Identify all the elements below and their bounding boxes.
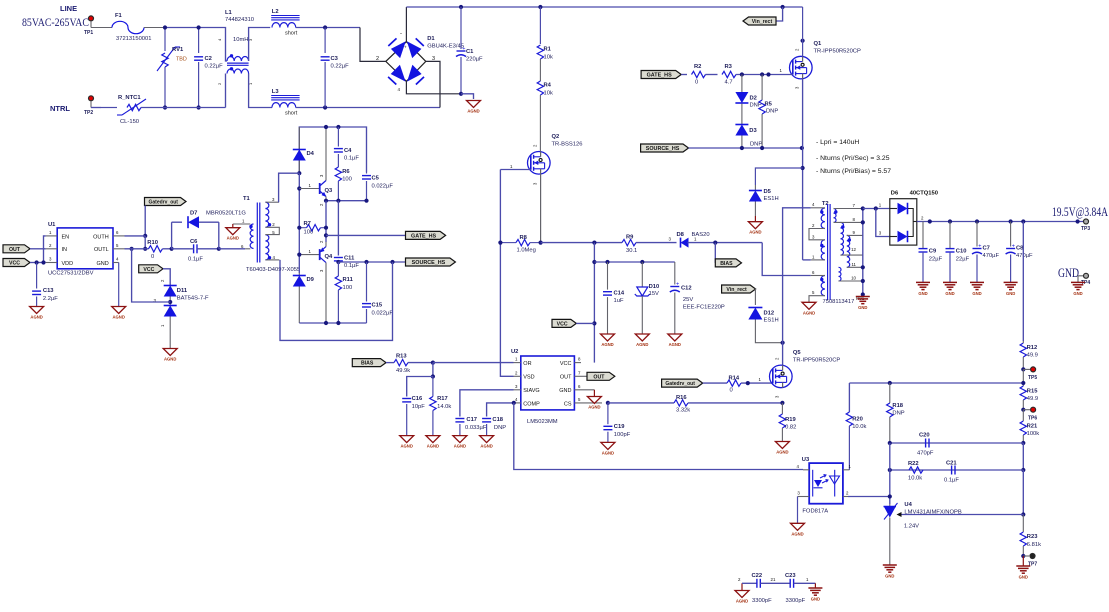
junction R22 left [888, 468, 892, 472]
resistor R23 [1020, 515, 1041, 557]
transistor Q4 [299, 240, 333, 323]
inductor L3 short [271, 89, 299, 117]
svg-text:R16: R16 [676, 395, 687, 401]
transistor Q5 [759, 350, 841, 398]
junction Q5 source [780, 401, 784, 405]
svg-text:D10: D10 [649, 284, 660, 290]
svg-text:3: 3 [432, 56, 435, 62]
diode D7 [172, 211, 247, 249]
capacitor C18 DNP [482, 403, 514, 436]
svg-text:C22: C22 [752, 573, 763, 579]
junction C8 top [1009, 219, 1013, 223]
svg-text:C17: C17 [466, 417, 477, 423]
svg-text:R10: R10 [147, 240, 158, 246]
svg-text:D12: D12 [764, 311, 775, 317]
junction C4 top [336, 125, 340, 129]
svg-text:R22: R22 [908, 461, 919, 467]
svg-text:D6: D6 [891, 191, 899, 197]
svg-text:AGND: AGND [467, 109, 479, 114]
svg-text:100: 100 [342, 177, 352, 183]
wire T1 pin3 to cell [279, 173, 300, 202]
svg-text:R9: R9 [626, 235, 634, 241]
transistor Q3 [299, 127, 333, 206]
resistor R6 [335, 154, 352, 201]
diode D12 [748, 289, 782, 343]
junction Q3 base [297, 186, 301, 190]
wire OUTH to OUTL row [125, 236, 146, 249]
capacitor C4 [334, 127, 359, 162]
svg-text:TP5: TP5 [1028, 375, 1037, 381]
junction R7 right [324, 226, 328, 230]
svg-text:AGND: AGND [113, 315, 125, 320]
capacitor C6 [172, 239, 219, 263]
capacitor C22 [738, 573, 790, 604]
wire R12 column [1022, 222, 1024, 342]
wire bottom AC rail [91, 107, 226, 109]
junction D6 out [928, 219, 932, 223]
svg-text:D2: D2 [750, 96, 757, 102]
node NTRL label [50, 104, 70, 113]
svg-text:25V: 25V [683, 297, 693, 303]
junction C13 top [35, 260, 39, 264]
svg-text:VCC: VCC [560, 361, 572, 367]
junction bus pin8 [861, 220, 865, 224]
wire T2 secondary common bus [862, 209, 864, 295]
svg-text:R5: R5 [765, 102, 773, 108]
capacitor C17 [455, 390, 513, 436]
resistor R3 [722, 64, 736, 86]
net label SOURCE_HS mid [406, 258, 456, 266]
svg-text:D9: D9 [307, 277, 315, 283]
junction emitter jog [324, 199, 328, 203]
capacitor C12 [670, 262, 725, 334]
resistor R17 [430, 377, 452, 436]
junction D12 bottom [781, 341, 785, 345]
wire OUTL row [125, 248, 149, 250]
svg-text:AGND: AGND [636, 342, 648, 347]
svg-text:GND: GND [972, 291, 981, 296]
svg-text:GND: GND [1006, 291, 1015, 296]
test point TP2 [84, 96, 94, 116]
svg-text:GND: GND [1058, 266, 1079, 280]
wire T2 pin7 to D6 [863, 208, 890, 210]
svg-text:TP1: TP1 [84, 30, 93, 36]
ground AGND at C1 [461, 94, 481, 114]
capacitor C15 [362, 262, 393, 323]
ground AGND at U1 GND pin [112, 263, 126, 320]
wire GATE_HS to R2 [681, 74, 687, 76]
junction U4 ref node [1021, 512, 1025, 516]
svg-text:TR-BSS126: TR-BSS126 [552, 142, 583, 148]
junction Q1 drain [801, 39, 805, 43]
svg-text:11: 11 [851, 262, 856, 267]
svg-text:0.82: 0.82 [785, 424, 796, 430]
svg-text:D7: D7 [190, 211, 197, 217]
svg-text:AGND: AGND [401, 444, 413, 449]
capacitor C3 [321, 28, 350, 108]
resistor R12 [1020, 341, 1038, 369]
resistor R11 [335, 262, 353, 323]
svg-text:AGND: AGND [791, 531, 803, 536]
wire Q1 source down to T2 pin1 [803, 79, 811, 260]
net label Vin_rect top [743, 7, 783, 25]
net label VCC mid [552, 319, 594, 327]
ground AGND at D10 [635, 334, 649, 347]
junction C3 top [323, 25, 327, 29]
ground AGND at U3 pin3 [791, 497, 805, 537]
svg-text:U4: U4 [904, 502, 912, 508]
svg-text:R18: R18 [892, 403, 903, 409]
test point TP1 [84, 16, 94, 36]
junction OUTL node [143, 247, 147, 251]
wire rectified rail [406, 6, 802, 8]
capacitor C23 [785, 573, 815, 604]
wire Q1 drain [802, 7, 804, 57]
svg-text:470µF: 470µF [983, 253, 1000, 259]
svg-text:3300pF: 3300pF [752, 598, 772, 604]
junction RV1 top [163, 25, 167, 29]
junction C6 left [170, 247, 174, 251]
junction R13 right [431, 361, 435, 365]
capacitor C19 [603, 403, 630, 443]
ground AGND at C13 [30, 307, 44, 320]
junction Vin_rect drop [781, 5, 785, 9]
svg-text:RV1: RV1 [172, 47, 184, 53]
wire SOURCE_HS row cell [338, 261, 405, 263]
junction Q4 collector rail [324, 321, 328, 325]
svg-text:220µF: 220µF [466, 57, 483, 63]
junction VCC column top [592, 241, 596, 245]
resistor R9 [622, 235, 637, 255]
junction D2 top [740, 72, 744, 76]
svg-text:BIAS: BIAS [720, 261, 733, 267]
svg-text:4.7: 4.7 [725, 80, 733, 86]
junction bus bottom [861, 292, 865, 296]
svg-text:ES1H: ES1H [764, 196, 779, 202]
svg-text:Q4: Q4 [325, 254, 334, 260]
svg-text:+: + [676, 281, 679, 287]
junction RV1 bottom [163, 105, 167, 109]
ground GND at C9 [916, 282, 930, 296]
ground AGND at R17 [426, 436, 440, 449]
svg-text:C21: C21 [946, 461, 957, 467]
net label GATE_HS right [641, 71, 681, 79]
zener D10 [635, 262, 659, 334]
resistor R14 [727, 376, 741, 394]
svg-text:GND: GND [559, 388, 571, 394]
svg-text:22µF: 22µF [956, 257, 970, 263]
svg-text:C3: C3 [331, 56, 339, 62]
resistor R5 DNP [759, 75, 778, 149]
test point TP5 [1021, 367, 1037, 381]
junction vcc cap rail [592, 260, 596, 264]
svg-text:C4: C4 [344, 148, 352, 154]
junction C20 left [888, 441, 892, 445]
svg-text:R20: R20 [852, 417, 863, 423]
svg-text:VDD: VDD [62, 261, 74, 267]
diode D4 [293, 127, 315, 173]
capacitor C1 [456, 7, 483, 94]
wire R8 to R9 [541, 242, 622, 244]
junction D5 row [801, 166, 805, 170]
svg-text:D11: D11 [177, 288, 188, 294]
ic U1 UCC27531 [46, 222, 125, 277]
svg-text:Q1: Q1 [814, 41, 823, 47]
wire column to R22 row [1022, 443, 1024, 470]
svg-text:0.22µF: 0.22µF [331, 64, 350, 70]
junction T1 pin3 node [297, 171, 301, 175]
svg-text:470µF: 470µF [1016, 253, 1033, 259]
svg-text:15V: 15V [649, 291, 659, 297]
svg-text:short: short [285, 31, 298, 37]
svg-text:L3: L3 [272, 89, 280, 95]
wire top AC rail [165, 27, 225, 29]
svg-text:GND: GND [1073, 291, 1082, 296]
svg-text:GND: GND [811, 597, 820, 602]
junction VCC tag node [592, 321, 596, 325]
svg-text:C11: C11 [344, 256, 355, 262]
wire R2 to R3 [706, 74, 718, 76]
net label VCC at D11 [139, 265, 163, 273]
ground GND at TP7 [1016, 556, 1030, 580]
junction D10 top [640, 260, 644, 264]
wire SOURCE_HS row [689, 147, 802, 149]
svg-text:+: + [462, 46, 465, 52]
wire Q2 source down [540, 174, 542, 243]
junction COMP node [512, 401, 516, 405]
svg-text:GND: GND [945, 291, 954, 296]
svg-text:GND: GND [885, 574, 894, 579]
resistor R20 [846, 383, 866, 470]
svg-text:+: + [1012, 243, 1015, 249]
svg-text:UCC27531/2DBV: UCC27531/2DBV [48, 271, 94, 277]
svg-text:C2: C2 [205, 56, 212, 62]
wire D8 to bias corner [688, 242, 763, 244]
svg-text:C14: C14 [614, 291, 625, 297]
wire D6 out to rail [917, 221, 1083, 223]
svg-text:Q5: Q5 [793, 350, 802, 356]
svg-text:AGND: AGND [164, 357, 176, 362]
junction C20 right [1021, 441, 1025, 445]
svg-text:VCC: VCC [9, 261, 20, 267]
junction Q5 gate node [746, 381, 750, 385]
svg-text:10.0k: 10.0k [908, 476, 922, 482]
svg-text:3300pF: 3300pF [786, 598, 806, 604]
svg-text:0.022µF: 0.022µF [372, 184, 394, 190]
wire bias divider column [432, 363, 434, 377]
junction R11 bottom [336, 321, 340, 325]
ground AGND at R19 [775, 442, 789, 455]
note Nturns pri-bias [816, 168, 891, 175]
svg-text:VCC: VCC [557, 322, 568, 328]
wire R13 to U2 pin1 [433, 362, 514, 364]
svg-text:AGND: AGND [480, 444, 492, 449]
svg-text:0.1µF: 0.1µF [944, 478, 959, 484]
wire Gatedrv_out down to OUTH [144, 206, 146, 236]
svg-text:C16: C16 [412, 396, 423, 402]
svg-text:0.033µF: 0.033µF [465, 425, 487, 431]
net label VCC left [3, 259, 46, 267]
svg-text:BIAS: BIAS [361, 361, 374, 367]
junction divider node [431, 374, 435, 378]
note Nturns pri-sec [816, 155, 890, 162]
net label Gatedrv_out mid [662, 379, 727, 387]
svg-text:D4: D4 [307, 151, 315, 157]
ground AGND at C22 [735, 583, 749, 603]
svg-text:AGND: AGND [30, 315, 42, 320]
svg-text:BAT54S-7-F: BAT54S-7-F [177, 296, 209, 302]
svg-text:GND: GND [1019, 575, 1028, 580]
svg-text:U2: U2 [511, 349, 518, 355]
net label OUT left [3, 245, 46, 253]
svg-text:R23: R23 [1027, 534, 1038, 540]
junction C7 top [975, 219, 979, 223]
svg-text:L1: L1 [225, 10, 233, 16]
svg-text:0: 0 [730, 388, 733, 394]
svg-text:22µF: 22µF [929, 257, 943, 263]
node LINE label [22, 4, 89, 29]
ground AGND at D11 [163, 349, 177, 362]
svg-text:MBR0520LT1G: MBR0520LT1G [206, 211, 246, 217]
junction BIAS drop [713, 241, 717, 245]
svg-text:10: 10 [851, 276, 856, 281]
ground AGND at C17 [453, 436, 467, 449]
svg-text:7508113417: 7508113417 [823, 299, 855, 305]
svg-text:AGND: AGND [776, 450, 788, 455]
node output label [1052, 205, 1108, 219]
svg-text:EN: EN [62, 234, 70, 240]
wire driver cell top rail [299, 127, 366, 173]
ground GND at C8 [1004, 282, 1018, 296]
net label GATE_HS mid [406, 231, 446, 239]
svg-text:CS: CS [564, 401, 572, 407]
svg-text:short: short [285, 111, 298, 117]
resistor R4 [537, 59, 553, 152]
svg-text:R11: R11 [343, 277, 354, 283]
wire Q2 gate to VSD column [500, 170, 530, 243]
svg-text:AGND: AGND [427, 444, 439, 449]
svg-text:TP3: TP3 [1081, 226, 1090, 232]
junction C21 right [1021, 468, 1025, 472]
svg-text:U3: U3 [802, 457, 810, 463]
junction R12 column top [1021, 219, 1025, 223]
net label BIAS right [715, 243, 741, 267]
svg-text:OUT: OUT [560, 375, 572, 381]
svg-text:VCC: VCC [143, 267, 154, 273]
junction R6 bottom [336, 199, 340, 203]
fuse F1 [91, 13, 165, 42]
svg-text:- Nturns (Pri/Bias) = 5.57: - Nturns (Pri/Bias) = 5.57 [816, 168, 891, 175]
capacitor C20 [917, 433, 934, 457]
ic U2 LM5023MM [511, 349, 602, 425]
svg-text:12: 12 [851, 247, 856, 252]
svg-text:40CTQ150: 40CTQ150 [910, 191, 938, 197]
shunt regulator U4 LMV431 [884, 502, 962, 565]
ic U3 FOD817A [797, 457, 852, 515]
svg-text:AGND: AGND [749, 230, 761, 235]
junction C14 top [605, 260, 609, 264]
junction fb column U3 [888, 494, 892, 498]
svg-text:OUT: OUT [593, 374, 605, 380]
svg-text:R13: R13 [396, 354, 407, 360]
wire fb column [889, 443, 891, 504]
svg-text:Gatedrv_out: Gatedrv_out [149, 200, 179, 206]
junction R5 bottom [760, 146, 764, 150]
junction GATE_HS node [324, 233, 328, 237]
wire VSD up to R8 and Q2 gate [500, 243, 513, 377]
svg-text:100: 100 [304, 230, 314, 236]
svg-text:OUTL: OUTL [94, 247, 109, 253]
ground AGND at D5 [748, 216, 762, 235]
svg-text:C20: C20 [919, 433, 930, 439]
junction D6 pin3 drop [874, 206, 878, 210]
test point TP4 [1078, 273, 1090, 286]
ground AGND at T2 pin5 [802, 302, 816, 315]
svg-text:L2: L2 [272, 9, 279, 15]
svg-text:NTRL: NTRL [50, 104, 70, 113]
capacitor C7 [972, 222, 1000, 283]
svg-text:C12: C12 [681, 286, 692, 292]
junction R8 right Q2 source [539, 241, 543, 245]
wire to D6 pin3 [876, 203, 890, 237]
svg-text:FOD817A: FOD817A [802, 509, 828, 515]
ground GND at C23 [808, 583, 822, 601]
capacitor C9 [919, 222, 943, 283]
wire L3 to bridge [296, 107, 440, 109]
svg-text:R7: R7 [304, 221, 311, 227]
ground AGND at C16 [400, 436, 414, 449]
wire CS row to R16 [608, 402, 674, 404]
svg-text:1.24V: 1.24V [904, 524, 919, 530]
ground AGND at C19 [601, 442, 615, 455]
junction EN-VDD [41, 260, 45, 264]
junction C1 bottom [459, 92, 463, 96]
svg-text:TBD: TBD [176, 57, 187, 63]
svg-text:1.0Meg: 1.0Meg [517, 248, 536, 254]
svg-text:2.2µF: 2.2µF [43, 296, 58, 302]
svg-text:14.0k: 14.0k [437, 404, 451, 410]
wire driver cell bottom rail [299, 322, 366, 324]
capacitor C21 [944, 461, 959, 484]
inductor L2 short [271, 9, 299, 37]
svg-text:R14: R14 [729, 376, 740, 382]
svg-text:100pF: 100pF [614, 432, 631, 438]
svg-text:R21: R21 [1027, 424, 1038, 430]
wire VCC column [593, 243, 595, 363]
wire column to U4 row [1022, 470, 1024, 515]
resistor R16 [674, 395, 690, 414]
svg-text:0: 0 [151, 254, 154, 260]
svg-text:10pF: 10pF [412, 404, 426, 410]
resistor R21 [1020, 410, 1039, 443]
junction Q4 base [297, 253, 301, 257]
svg-text:AGND: AGND [454, 444, 466, 449]
svg-text:LINE: LINE [60, 4, 77, 13]
resistor R19 [779, 403, 796, 442]
svg-text:30.1: 30.1 [626, 248, 637, 254]
svg-text:OUTH: OUTH [93, 234, 109, 240]
svg-text:R4: R4 [544, 83, 552, 89]
svg-text:D3: D3 [749, 128, 757, 134]
wire GATE_HS long [326, 234, 406, 236]
capacitor C16 [402, 377, 433, 436]
diode D11 BAT54S [154, 269, 210, 348]
diode D5 [749, 168, 803, 216]
wire R16 to Q5 source [688, 402, 782, 404]
wire R3 to Q1 gate [736, 74, 793, 76]
ground AGND at C18 [480, 436, 494, 449]
wire T2 pin4 to Q5 drain [783, 208, 811, 365]
